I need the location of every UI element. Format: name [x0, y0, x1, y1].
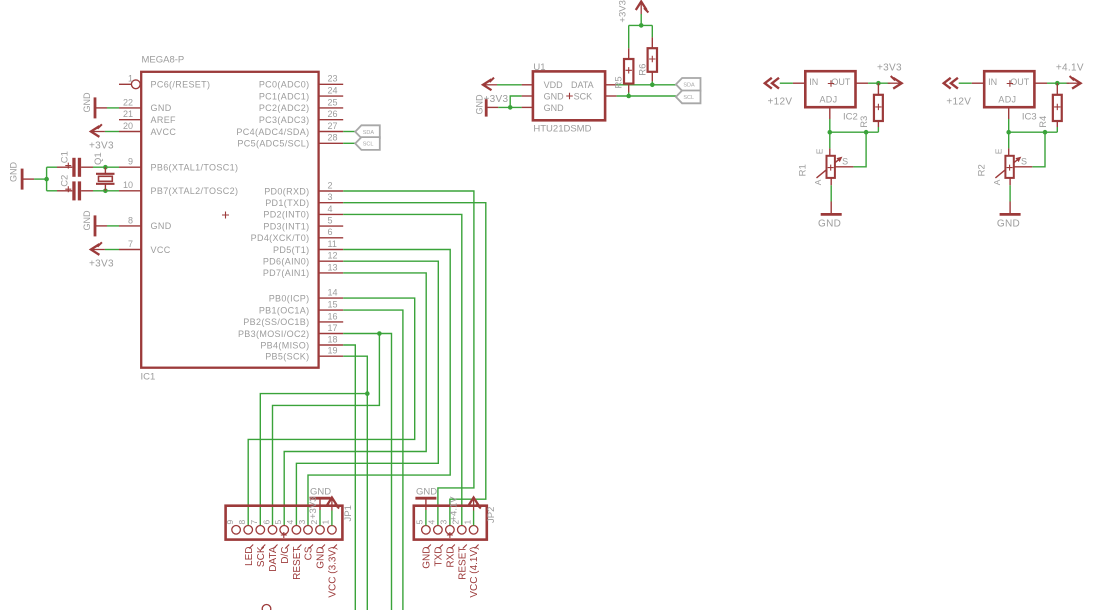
- svg-text:D/C: D/C: [280, 547, 291, 564]
- IC1 pin 2 PD0(RXD): [319, 190, 344, 192]
- IC3 OUT pin: [1034, 82, 1047, 84]
- junction DATA R6: [650, 83, 655, 88]
- svg-text:PB6(XTAL1/TOSC1): PB6(XTAL1/TOSC1): [151, 163, 239, 173]
- ground at U1: [485, 99, 488, 116]
- wire PB5 down: [343, 356, 367, 610]
- junction ADJ 2: [1043, 130, 1048, 135]
- svg-text:VCC (3.3V): VCC (3.3V): [328, 547, 339, 598]
- wire PB4 down: [343, 345, 355, 610]
- svg-text:SDA: SDA: [363, 130, 375, 136]
- IC1 pin 6 PD4(XCK/T0): [319, 237, 344, 239]
- IC1 pin 10 PB7(XTAL2/TOSC2): [119, 190, 141, 192]
- wire C2 to pin 10: [93, 190, 119, 192]
- potentiometer R1: [829, 132, 831, 148]
- svg-text:DATA: DATA: [268, 546, 279, 572]
- wire ADJ node: [1009, 131, 1058, 133]
- svg-text:5: 5: [328, 216, 333, 226]
- svg-text:PD6(AIN0): PD6(AIN0): [263, 257, 310, 267]
- svg-text:PB5(SCK): PB5(SCK): [265, 352, 309, 362]
- svg-text:16: 16: [328, 311, 338, 321]
- U1 pin VDD: [522, 84, 533, 86]
- svg-text:15: 15: [328, 300, 338, 310]
- svg-text:22: 22: [123, 97, 133, 107]
- svg-text:5: 5: [273, 520, 283, 525]
- JP2 pin 1 VCC (4.1V): [469, 526, 478, 535]
- wire PD1 to JP2 pin3 RXD: [343, 203, 486, 526]
- IC1 pin 26 PC3(ADC3): [319, 119, 344, 121]
- wire PB5 branch to JP1 pin7 SCK: [260, 394, 367, 526]
- partial pin circle at bottom edge: [262, 605, 271, 610]
- svg-text:SCK: SCK: [574, 91, 593, 101]
- svg-text:PD3(INT1): PD3(INT1): [263, 221, 309, 231]
- svg-text:GND: GND: [475, 94, 485, 115]
- wire PB0 to JP1 pin8 LED: [248, 298, 415, 525]
- svg-text:VCC (4.1V): VCC (4.1V): [469, 547, 480, 598]
- JP1 pin 4 RESET: [292, 526, 301, 535]
- junction OUT: [876, 81, 881, 86]
- wire DATA to SDA flag: [617, 84, 676, 86]
- svg-text:GND: GND: [544, 91, 565, 101]
- svg-text:PB1(OC1A): PB1(OC1A): [259, 305, 310, 315]
- svg-text:PC1(ADC1): PC1(ADC1): [259, 91, 310, 101]
- JP1 pin 1 VCC (3.3V): [328, 526, 337, 535]
- svg-text:+12V: +12V: [946, 96, 971, 107]
- JP1 pin 9: [232, 526, 241, 535]
- svg-text:21: 21: [123, 109, 133, 119]
- svg-text:7: 7: [128, 239, 133, 249]
- svg-text:SDA: SDA: [683, 83, 695, 89]
- svg-text:+4.1V: +4.1V: [449, 496, 460, 522]
- IC1 pin 21 AREF: [119, 119, 141, 121]
- svg-text:10: 10: [123, 180, 133, 190]
- IC1 pin 14 PB0(ICP): [319, 297, 344, 299]
- svg-text:SCL: SCL: [683, 95, 694, 101]
- IC2 IN pin: [793, 82, 805, 84]
- crystal Q1: [104, 167, 106, 174]
- svg-text:PD0(RXD): PD0(RXD): [264, 186, 309, 196]
- IC1 pin 19 PB5(SCK): [319, 355, 344, 357]
- svg-text:HTU21DSMD: HTU21DSMD: [533, 124, 591, 135]
- svg-text:PB2(SS/OC1B): PB2(SS/OC1B): [243, 317, 309, 327]
- ground left of crystal: [21, 169, 24, 190]
- svg-text:RESET: RESET: [292, 547, 303, 580]
- IC1 pin 20 AVCC: [119, 131, 141, 133]
- svg-text:RXD: RXD: [446, 547, 457, 568]
- wire ADJ down: [1008, 119, 1010, 132]
- wire PD0 to JP2 pin4 TXD: [343, 191, 474, 526]
- svg-text:AREF: AREF: [151, 115, 177, 125]
- svg-text:IC1: IC1: [141, 372, 156, 383]
- ground at IC1 pin 8: [94, 215, 97, 236]
- resistor R5: [628, 25, 630, 48]
- svg-text:PC6(/RESET): PC6(/RESET): [151, 80, 211, 90]
- svg-text:17: 17: [328, 323, 338, 333]
- IC1 pin 4 PD2(INT0): [319, 213, 344, 215]
- U1 pin GND mid: [522, 95, 533, 97]
- wire pot to ground: [1009, 185, 1011, 201]
- svg-text:8: 8: [128, 215, 133, 225]
- capacitor C1: [47, 166, 57, 168]
- svg-text:C1: C1: [60, 151, 71, 163]
- svg-text:SCK: SCK: [256, 546, 267, 567]
- sensor U1 body: [533, 71, 605, 120]
- svg-text:PB0(ICP): PB0(ICP): [269, 293, 310, 303]
- wire PB3 branch to JP1 pin6 DATA: [273, 334, 380, 526]
- svg-text:PC4(ADC4/SDA): PC4(ADC4/SDA): [236, 127, 309, 137]
- IC1 pin 12 PD6(AIN0): [319, 260, 344, 262]
- svg-text:IC2: IC2: [843, 111, 858, 122]
- wire pot to ground: [830, 185, 832, 201]
- svg-text:18: 18: [328, 334, 338, 344]
- wire PB3 down: [343, 334, 391, 610]
- wire +12V to IC3: [959, 82, 972, 84]
- svg-text:R1: R1: [798, 164, 809, 176]
- junction pullup top: [639, 23, 644, 28]
- wire ADJ node: [830, 131, 879, 133]
- svg-text:GND: GND: [82, 92, 92, 113]
- svg-text:GND: GND: [82, 210, 92, 231]
- svg-text:PC5(ADC5/SCL): PC5(ADC5/SCL): [237, 139, 309, 149]
- JP2 pin 4 TXD: [434, 526, 443, 535]
- svg-text:R6: R6: [638, 64, 649, 76]
- net flag SCL right: [676, 91, 701, 104]
- wire +12V to IC2: [780, 82, 793, 84]
- svg-text:PD1(TXD): PD1(TXD): [265, 198, 309, 208]
- svg-text:GND: GND: [151, 103, 172, 113]
- JP2 pin 5 GND: [422, 526, 431, 535]
- svg-text:14: 14: [328, 288, 338, 298]
- regulator IC3 body: [984, 71, 1034, 107]
- svg-text:GND: GND: [151, 221, 172, 231]
- svg-text:PC2(ADC2): PC2(ADC2): [259, 103, 310, 113]
- wire U1 gnd to ground: [498, 106, 521, 108]
- svg-text:3: 3: [328, 192, 333, 202]
- supply +3V3 at IC2 OUT: [888, 82, 902, 84]
- svg-text:9: 9: [225, 520, 235, 525]
- IC3 IN pin: [972, 82, 984, 84]
- svg-text:4: 4: [285, 520, 295, 525]
- svg-text:6: 6: [261, 520, 271, 525]
- U1 pin SCK: [605, 95, 617, 97]
- junction SCK R5: [626, 94, 631, 99]
- svg-text:IN: IN: [988, 77, 997, 87]
- connector JP1 body: [226, 506, 343, 540]
- JP1 pin 2 GND: [316, 526, 325, 535]
- IC1 pin 3 PD1(TXD): [319, 202, 344, 204]
- svg-text:TXD: TXD: [434, 547, 445, 567]
- IC1 pin 24 PC1(ADC1): [319, 95, 344, 97]
- svg-text:S: S: [1021, 157, 1027, 167]
- JP1 pin 8 LED: [244, 526, 253, 535]
- wire PD7 to JP1 pin5 D/C: [284, 273, 426, 526]
- svg-text:C2: C2: [60, 175, 71, 187]
- svg-text:4: 4: [328, 204, 333, 214]
- svg-text:R2: R2: [976, 164, 987, 176]
- svg-text:IC3: IC3: [1022, 111, 1037, 122]
- JP1 origin cross: [281, 532, 287, 538]
- IC1 pin 11 PD5(T1): [319, 249, 344, 251]
- wire ADJ down: [829, 119, 831, 132]
- IC1 pin 13 PD7(AIN1): [319, 272, 344, 274]
- IC1 pin 9 PB6(XTAL1/TOSC1): [119, 166, 141, 168]
- svg-text:6: 6: [328, 227, 333, 237]
- svg-text:3: 3: [297, 520, 307, 525]
- svg-text:PD7(AIN1): PD7(AIN1): [263, 268, 310, 278]
- wire OUT to supply: [868, 82, 890, 84]
- IC1 pin 5 PD3(INT1): [319, 225, 344, 227]
- svg-text:2: 2: [328, 180, 333, 190]
- IC2 ADJ pin: [829, 107, 831, 119]
- U1 pin GND bottom: [522, 106, 533, 108]
- svg-text:+3V3: +3V3: [618, 0, 629, 22]
- JP2 pin 2 RESET: [458, 526, 467, 535]
- junction OUT: [1055, 81, 1060, 86]
- regulator IC2 body: [805, 71, 855, 107]
- svg-text:OUT: OUT: [831, 77, 851, 87]
- IC1 pin 16 PB2(SS/OC1B): [319, 321, 344, 323]
- svg-text:PC3(ADC3): PC3(ADC3): [259, 115, 310, 125]
- svg-text:E: E: [993, 148, 1003, 154]
- svg-text:20: 20: [123, 121, 133, 131]
- IC1 pin 28 PC5(ADC5/SCL): [319, 142, 344, 144]
- junction U1 gnd: [508, 105, 513, 110]
- wire SCK to SCL flag: [617, 95, 676, 97]
- IC1 pin 23 PC0(ADC0): [319, 83, 344, 85]
- junction caps-gnd: [44, 177, 49, 182]
- svg-text:GND: GND: [416, 486, 437, 497]
- supply +3V3 at IC1 pin 7: [91, 249, 105, 251]
- svg-text:LED: LED: [244, 547, 255, 566]
- IC1 pin 1 PC6(/RESET): [119, 83, 132, 85]
- svg-text:VDD: VDD: [544, 80, 564, 90]
- IC1 pin 8 GND: [119, 225, 141, 227]
- svg-text:23: 23: [328, 74, 338, 84]
- wire wiper feedback: [1032, 132, 1045, 167]
- svg-text:S: S: [842, 157, 848, 167]
- svg-text:1: 1: [128, 74, 133, 84]
- JP1 pin 3 CS: [304, 526, 313, 535]
- svg-text:JP1: JP1: [343, 505, 354, 521]
- wire pin28 to SCL flag: [343, 142, 355, 144]
- svg-text:GND: GND: [316, 547, 327, 569]
- junction crystal bottom: [103, 189, 108, 194]
- JP1 pin 5 D/C: [280, 526, 289, 535]
- potentiometer R2: [1008, 132, 1010, 148]
- svg-text:28: 28: [328, 133, 338, 143]
- wire PB1 down: [343, 310, 403, 610]
- supply +12V at IC2 IN: [765, 78, 772, 89]
- svg-text:+12V: +12V: [768, 96, 793, 107]
- svg-text:ADJ: ADJ: [998, 95, 1016, 105]
- supply +12V at IC3 IN: [944, 78, 951, 89]
- wire pullup top: [629, 24, 653, 26]
- wire C1 to pin 9: [93, 166, 119, 168]
- svg-text:SCL: SCL: [363, 142, 374, 148]
- svg-text:AVCC: AVCC: [151, 127, 177, 137]
- ground below R2: [1009, 202, 1011, 215]
- svg-text:GND: GND: [818, 219, 841, 230]
- IC1 MEGA8-P body: [141, 72, 318, 368]
- wire wiper feedback: [853, 132, 866, 167]
- IC1 pin 17 PB3(MOSI/OC2): [319, 333, 344, 335]
- svg-text:A: A: [992, 179, 1002, 185]
- wire PD6 to JP1 pin4 RESET: [296, 261, 438, 525]
- svg-text:PD2(INT0): PD2(INT0): [263, 210, 309, 220]
- wire PD5 to JP1 pin3 CS: [308, 250, 450, 526]
- svg-text:RESET: RESET: [457, 547, 468, 580]
- JP1 pin 7 SCK: [256, 526, 265, 535]
- svg-text:MEGA8-P: MEGA8-P: [142, 55, 185, 66]
- svg-text:PB4(MISO): PB4(MISO): [260, 340, 309, 350]
- connector JP2 body: [414, 506, 487, 540]
- IC1 pin 25 PC2(ADC2): [319, 107, 344, 109]
- capacitor C2: [47, 190, 57, 192]
- svg-text:12: 12: [328, 251, 338, 261]
- svg-text:13: 13: [328, 262, 338, 272]
- IC3 ADJ pin: [1008, 107, 1010, 119]
- IC1 pin 22 GND: [119, 107, 141, 109]
- svg-text:VCC: VCC: [151, 245, 171, 255]
- svg-text:25: 25: [328, 97, 338, 107]
- junction PB5 branch: [365, 391, 370, 396]
- svg-text:11: 11: [328, 239, 337, 249]
- U1 origin cross: [566, 93, 573, 100]
- junction PB3 branch: [377, 331, 382, 336]
- supply +3V3 above JP1 pin 1: [331, 498, 333, 511]
- svg-text:PB3(MOSI/OC2): PB3(MOSI/OC2): [238, 329, 310, 339]
- junction ADJ 1: [828, 130, 833, 135]
- svg-text:+3V3: +3V3: [877, 62, 902, 73]
- IC2 OUT pin: [856, 82, 869, 84]
- supply +4.1V at IC3 OUT: [1067, 82, 1081, 84]
- U1 pin DATA: [605, 84, 617, 86]
- JP2 pin 3 RXD: [446, 526, 455, 535]
- svg-text:JP2: JP2: [486, 507, 497, 523]
- svg-text:GND: GND: [310, 486, 331, 497]
- resistor R3: [877, 83, 879, 95]
- junction ADJ 2: [864, 130, 869, 135]
- svg-text:R3: R3: [859, 116, 870, 128]
- svg-text:OUT: OUT: [1010, 77, 1030, 87]
- wire OUT to supply: [1047, 82, 1069, 84]
- svg-text:26: 26: [328, 109, 338, 119]
- svg-text:PC0(ADC0): PC0(ADC0): [259, 80, 310, 90]
- svg-text:+3V3: +3V3: [308, 497, 319, 519]
- svg-text:PB7(XTAL2/TOSC2): PB7(XTAL2/TOSC2): [151, 186, 239, 196]
- IC1 pin 7 VCC: [119, 249, 141, 251]
- IC1 pin 18 PB4(MISO): [319, 344, 344, 346]
- IC1 origin cross: [222, 212, 229, 219]
- supply +3V3 at IC1 pin 20: [91, 131, 105, 133]
- svg-text:GND: GND: [9, 162, 19, 183]
- svg-text:GND: GND: [544, 103, 565, 113]
- resistor R4: [1056, 83, 1058, 95]
- svg-text:U1: U1: [533, 62, 545, 73]
- resistor R6: [651, 25, 653, 37]
- supply +3V3 above R5 R6: [640, 2, 642, 15]
- svg-text:8: 8: [237, 520, 247, 525]
- net flag SDA right: [676, 78, 701, 91]
- wire pin27 to SDA flag: [343, 131, 355, 133]
- svg-text:27: 27: [328, 121, 338, 131]
- svg-text:IN: IN: [809, 77, 818, 87]
- junction crystal top: [103, 165, 108, 170]
- ground below R1: [830, 202, 832, 215]
- svg-text:4: 4: [427, 520, 437, 525]
- svg-text:1: 1: [462, 520, 472, 525]
- supply +4.1V above JP2 pin 1: [473, 498, 475, 511]
- svg-text:1: 1: [321, 520, 331, 525]
- net flag SCL: [355, 137, 380, 150]
- svg-text:GND: GND: [997, 219, 1020, 230]
- svg-text:Q1: Q1: [93, 152, 104, 165]
- svg-text:PD5(T1): PD5(T1): [273, 245, 309, 255]
- svg-text:19: 19: [328, 346, 338, 356]
- svg-text:2: 2: [309, 520, 319, 525]
- wire caps vertical: [46, 167, 48, 191]
- ground at IC1 pin 22: [94, 97, 97, 118]
- svg-text:PD4(XCK/T0): PD4(XCK/T0): [251, 233, 310, 243]
- svg-text:DATA: DATA: [571, 80, 594, 90]
- junction ADJ 1: [1006, 130, 1011, 135]
- net flag SDA: [355, 125, 380, 138]
- wire PD2 to JP2 pin2 RESET: [343, 214, 462, 525]
- JP1 pin 6 DATA: [268, 526, 277, 535]
- svg-text:ADJ: ADJ: [820, 95, 838, 105]
- supply +3V3 at U1 VDD: [483, 84, 497, 86]
- IC1 pin 27 PC4(ADC4/SDA): [319, 131, 344, 133]
- IC1 pin 15 PB1(OC1A): [319, 309, 344, 311]
- svg-text:3: 3: [439, 520, 449, 525]
- wire gnd to caps: [34, 178, 47, 180]
- svg-text:24: 24: [328, 86, 338, 96]
- svg-text:+3V3: +3V3: [89, 259, 114, 270]
- wire U1 gnd mid down: [510, 96, 521, 107]
- svg-text:E: E: [815, 148, 825, 154]
- JP2 origin cross: [447, 532, 453, 538]
- svg-text:GND: GND: [422, 547, 433, 569]
- svg-text:9: 9: [128, 157, 133, 167]
- svg-text:7: 7: [249, 520, 259, 525]
- svg-text:R5: R5: [614, 76, 625, 88]
- svg-text:A: A: [813, 179, 823, 185]
- svg-text:+4.1V: +4.1V: [1056, 62, 1084, 73]
- svg-text:+3V3: +3V3: [89, 141, 114, 152]
- svg-text:R4: R4: [1038, 116, 1049, 128]
- svg-text:5: 5: [415, 520, 425, 525]
